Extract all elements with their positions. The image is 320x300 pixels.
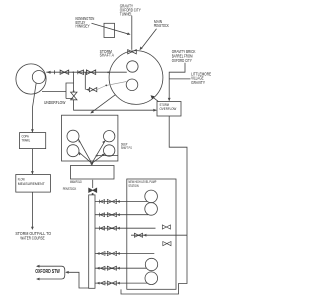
copa trawl box bbox=[20, 133, 46, 149]
apex junction node bbox=[91, 162, 93, 164]
screen rectangle on Kennington inlet bbox=[104, 23, 115, 37]
label COPA TRAWL bbox=[22, 134, 31, 143]
svg-text:UNDERFLOW: UNDERFLOW bbox=[44, 100, 66, 105]
underflow drop from main line bbox=[73, 72, 75, 91]
svg-text:OVERFLOW: OVERFLOW bbox=[160, 106, 177, 111]
valve V5 on connector bbox=[134, 233, 142, 237]
label MAIN PENSTOCK bbox=[154, 19, 169, 28]
svg-text:WATER COURSE: WATER COURSE bbox=[20, 236, 45, 242]
deep shaft pump 3 bbox=[104, 131, 115, 142]
new PS pump 4 bbox=[145, 272, 158, 285]
svg-text:MEASUREMENT: MEASUREMENT bbox=[18, 181, 45, 186]
storm shaft A wet well (large circle) bbox=[109, 51, 163, 105]
label STORM OUTFALL TO WATER COURSE bbox=[15, 231, 51, 241]
junction node below penstock bbox=[92, 193, 94, 195]
label GRAVITY BRICK BARREL FROM OXFORD CITY bbox=[172, 49, 196, 63]
svg-text:SHAFT P.S: SHAFT P.S bbox=[121, 145, 132, 150]
line copa to flow measurement bbox=[31, 149, 33, 174]
delivery line row 6 bbox=[95, 281, 147, 285]
label PENSTOCK bbox=[63, 186, 77, 191]
penstock valve PV2 (vertical) bbox=[89, 188, 97, 192]
underflow pipe from separator bbox=[42, 83, 73, 99]
svg-text:TUNNEL: TUNNEL bbox=[120, 11, 133, 16]
svg-text:PENSTOCK: PENSTOCK bbox=[63, 186, 77, 191]
lower bypass line bbox=[85, 72, 89, 89]
littlemore connector line bbox=[169, 78, 190, 80]
arrowhead into deep shaft box bbox=[90, 110, 94, 113]
arrowhead into flow measurement bbox=[31, 171, 34, 174]
main transfer line to shaft bbox=[46, 71, 127, 73]
storm overflow box bbox=[157, 102, 181, 117]
vortex separator (left circle) bbox=[16, 64, 46, 94]
label OXFORD STW bbox=[35, 269, 60, 275]
junction node on header bbox=[96, 155, 98, 157]
cross connector line bbox=[131, 233, 187, 237]
arrowhead to water course bbox=[31, 227, 34, 230]
pump discharge lines to manifold apex bbox=[78, 139, 105, 163]
check valve tick bbox=[54, 70, 56, 74]
valve V2 bbox=[86, 70, 95, 75]
label FLOW MEASUREMENT bbox=[18, 176, 45, 186]
label KENNINGTON BOTLEY HINKSEY bbox=[76, 16, 95, 29]
svg-text:MANIFOLD: MANIFOLD bbox=[70, 179, 82, 184]
svg-text:HINKSEY: HINKSEY bbox=[76, 24, 90, 29]
label GRAVITY OXFORD CITY TUNNEL bbox=[120, 4, 141, 17]
leader arrow from MAIN PENSTOCK to valve bbox=[140, 29, 157, 50]
delivery line row 4 bbox=[95, 251, 154, 255]
valve V4 on row 3 bbox=[162, 225, 170, 229]
line from apex into manifold bbox=[91, 163, 93, 166]
penstock valve PV1 (vertical) bbox=[71, 92, 77, 100]
pump discharge header to box edge bbox=[97, 155, 118, 157]
junction node on main line bbox=[73, 71, 75, 73]
valve V1 bbox=[60, 70, 69, 74]
svg-text:OXFORD STW: OXFORD STW bbox=[35, 269, 60, 275]
vortex underflow drop to works bbox=[32, 83, 36, 132]
deep shaft pump 4 bbox=[104, 145, 115, 156]
new PS pump 3 bbox=[145, 258, 157, 270]
oxford stw split arrows bbox=[36, 265, 65, 281]
junction node on bypass bbox=[105, 85, 107, 87]
manifold box bbox=[71, 166, 115, 180]
suction line row 1 to new PS bbox=[95, 199, 147, 203]
svg-text:SHAFT A: SHAFT A bbox=[100, 53, 115, 58]
arrowheads on discharge lines bbox=[78, 139, 105, 156]
arrowhead into manifold bbox=[90, 163, 93, 166]
arrowhead into vortex separator bbox=[47, 71, 51, 74]
tunnel inlet vertical line bbox=[131, 16, 133, 50]
new PS pump 2 bbox=[145, 203, 158, 216]
outfall line bbox=[31, 192, 33, 229]
arrowhead toward shaft bbox=[151, 95, 155, 99]
svg-text:PENSTOCK: PENSTOCK bbox=[154, 23, 169, 28]
rising main pipe (double line) bbox=[89, 195, 95, 288]
arrowhead on bypass bbox=[86, 88, 90, 91]
label NEW HIGH LEVEL PUMP STATION bbox=[128, 179, 156, 188]
isolated valve V6 bbox=[163, 242, 171, 246]
deep shaft pump 1 bbox=[67, 130, 79, 142]
bypass line into shaft pump P2 bbox=[97, 82, 127, 90]
new high level pump station box bbox=[127, 179, 176, 289]
manifold outlet bbox=[92, 180, 94, 188]
gravity barrel feed line bbox=[169, 63, 185, 101]
feed line from rising main to oxford stw bbox=[65, 271, 89, 288]
storm overflow outfall line bbox=[121, 116, 187, 294]
new PS pump 1 bbox=[145, 190, 158, 203]
vortex inner chamber bbox=[32, 71, 45, 84]
pump P2 in shaft bbox=[126, 79, 138, 91]
svg-text:TRAWL: TRAWL bbox=[22, 138, 31, 143]
delivery line row 5 bbox=[95, 266, 146, 270]
suction line row 3 through to shaft side bbox=[95, 225, 171, 230]
label STORM OVERFLOW bbox=[160, 102, 177, 111]
junction node above penstock valve bbox=[73, 90, 75, 92]
label DEEP SHAFT P.S bbox=[121, 141, 132, 150]
svg-text:STATION: STATION bbox=[128, 183, 138, 188]
arrowhead into storm overflow bbox=[168, 98, 171, 101]
deep shaft pump 2 bbox=[67, 145, 79, 157]
flow measurement box bbox=[16, 175, 51, 193]
junction node on shaft inlet bbox=[107, 72, 109, 74]
label STORM SHAFT A bbox=[100, 49, 115, 58]
label UNDERFLOW bbox=[44, 100, 66, 105]
underflow line to storm overflow chamber bbox=[74, 100, 157, 110]
svg-text:GRAVITY: GRAVITY bbox=[191, 80, 205, 85]
suction line row 2 to new PS bbox=[95, 213, 148, 217]
svg-text:OXFORD CITY: OXFORD CITY bbox=[172, 58, 192, 63]
overflow connector from shaft to storm overflow bbox=[152, 96, 159, 101]
check valve CV2 bbox=[78, 70, 84, 74]
main penstock valve on shaft top bbox=[128, 50, 137, 54]
leader arrow from KENNINGTON label to inlet line bbox=[92, 23, 131, 35]
pump P1 in shaft bbox=[127, 61, 138, 72]
label MANIFOLD bbox=[70, 179, 82, 184]
arrowhead into copa trawl bbox=[31, 129, 34, 132]
arrowhead into storm overflow box bbox=[153, 109, 157, 112]
deep shaft pumping station box bbox=[62, 115, 118, 161]
valve V3 bbox=[89, 88, 96, 92]
gravity feed from shaft to deep shaft PS bbox=[92, 95, 116, 113]
label LITTLEMORE VILLAGE GRAVITY bbox=[191, 72, 211, 85]
